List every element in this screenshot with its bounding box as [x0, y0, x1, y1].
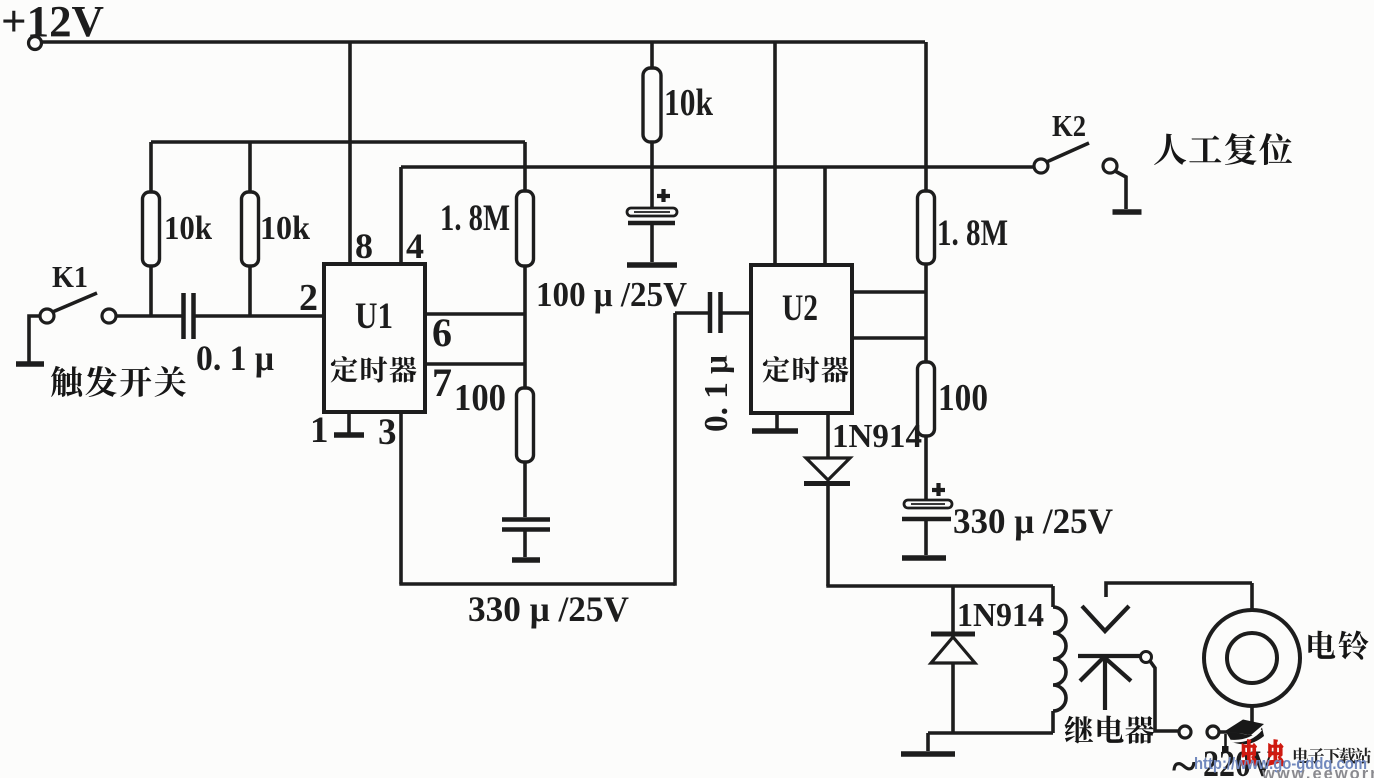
capacitor C4 0.1u coupling — [708, 292, 713, 333]
svg-text:100 μ /25V: 100 μ /25V — [536, 275, 687, 314]
svg-text:1. 8M: 1. 8M — [937, 213, 1008, 254]
resistor R6 100 — [517, 388, 534, 462]
diode D1 1N914 — [826, 413, 830, 458]
svg-text:1N914: 1N914 — [832, 418, 922, 455]
power terminal +12V — [29, 37, 42, 50]
terminal circles 220V — [1179, 726, 1191, 738]
watermark graduation cap — [1225, 720, 1264, 736]
wire U1 pin3 output — [399, 412, 403, 584]
svg-text:U1: U1 — [355, 296, 393, 337]
svg-text:6: 6 — [432, 310, 452, 355]
svg-text:10k: 10k — [664, 82, 714, 124]
ground U2 pin1 — [775, 413, 779, 429]
svg-text:330 μ /25V: 330 μ /25V — [468, 589, 629, 629]
watermark chongchong red — [1241, 740, 1256, 765]
svg-text:www.eeworm.com: www.eeworm.com — [1261, 765, 1374, 778]
svg-text:10k: 10k — [260, 210, 310, 247]
wire right vcc branch — [924, 42, 928, 191]
svg-text:7: 7 — [432, 360, 452, 405]
watermark site name — [1294, 748, 1309, 763]
wire U2 pin4 to rail3 — [823, 167, 827, 265]
wire +12V rail — [42, 40, 925, 44]
wire U1 pin4 to rail3 — [399, 167, 403, 264]
capacitor C1 0.1u — [181, 293, 186, 339]
wire R5 to R7 — [924, 264, 928, 362]
svg-text:330 μ /25V: 330 μ /25V — [953, 501, 1113, 541]
wire C1 to U1 pin2 — [195, 314, 324, 318]
wire U1 pin6 — [425, 312, 525, 316]
resistor R4 1.8M — [523, 142, 527, 191]
label electric bell — [1308, 631, 1335, 659]
svg-text:K2: K2 — [1052, 108, 1086, 143]
wire K1 to C1 — [116, 314, 182, 318]
wire rail2 VCC to pullups — [151, 140, 525, 144]
resistor R5 1.8M — [918, 191, 935, 264]
svg-text:1N914: 1N914 — [957, 597, 1044, 634]
svg-text:8: 8 — [355, 226, 373, 266]
IC U1 timer — [324, 264, 425, 412]
label relay — [1065, 716, 1094, 744]
svg-text:K1: K1 — [52, 259, 88, 294]
wire U1 pin8 to rail — [348, 42, 352, 264]
resistor R7 100 — [918, 362, 935, 436]
svg-text:2: 2 — [299, 277, 318, 319]
svg-text:1: 1 — [310, 410, 329, 451]
svg-text:1. 8M: 1. 8M — [440, 198, 510, 239]
svg-text:0. 1 μ: 0. 1 μ — [196, 338, 274, 378]
svg-text:~: ~ — [1172, 740, 1196, 778]
label trigger switch — [51, 366, 82, 397]
wire U1 pin7 — [425, 362, 525, 366]
wire D1 to relay coil — [826, 584, 1053, 588]
ground at relay — [926, 733, 930, 751]
wire U2 right pins — [852, 290, 926, 294]
electric bell — [1250, 583, 1254, 611]
relay coil — [1051, 586, 1055, 607]
relay contact — [1106, 583, 1252, 597]
wire R4 to pins 6 7 — [523, 266, 527, 388]
label 0.1u rotated — [698, 355, 735, 432]
svg-text:0. 1 μ: 0. 1 μ — [698, 355, 735, 432]
IC U2 timer — [751, 265, 852, 413]
resistor R3 10k middle — [650, 42, 654, 68]
svg-text:U2: U2 — [782, 288, 818, 329]
capacitor C3 timing — [523, 462, 527, 517]
wire coil bottom — [928, 731, 1053, 735]
ground at C2 — [627, 262, 677, 268]
label manual reset — [1154, 134, 1186, 165]
svg-text:+12V: +12V — [1, 0, 104, 46]
resistor R2 10k — [248, 142, 252, 192]
diode D2 1N914 flyback — [951, 586, 955, 632]
svg-text:100: 100 — [938, 377, 988, 419]
svg-text:4: 4 — [406, 226, 424, 266]
svg-text:3: 3 — [378, 412, 397, 453]
ground at C5 — [902, 555, 946, 561]
capacitor C5 330u electrolytic — [924, 436, 928, 500]
resistor R1 10k — [149, 142, 153, 192]
wire rail3 reset line — [401, 165, 1034, 169]
ground at K1 — [29, 316, 40, 362]
svg-text:100: 100 — [454, 377, 506, 419]
switch K2 — [1034, 159, 1048, 173]
capacitor C2 100u electrolytic — [650, 167, 654, 208]
wire U2 pin8 to rail — [773, 42, 777, 265]
svg-text:10k: 10k — [164, 210, 212, 247]
ground U1 pin1 — [347, 412, 351, 433]
ground at C3 — [512, 557, 540, 563]
ground at K2 — [1115, 171, 1126, 209]
